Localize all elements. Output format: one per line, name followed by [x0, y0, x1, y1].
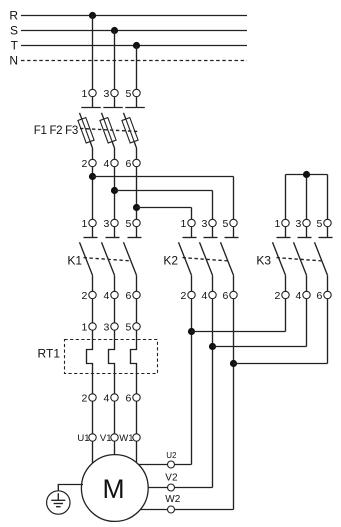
svg-text:R: R: [9, 9, 18, 23]
svg-text:6: 6: [125, 290, 131, 302]
svg-text:1: 1: [81, 88, 87, 100]
svg-text:V1: V1: [100, 433, 112, 444]
F1 pin 2: [92, 148, 94, 159]
wire to K3 pin 4: [213, 346, 307, 348]
svg-text:6: 6: [125, 392, 131, 404]
K2 linkage (dashed): [183, 258, 229, 261]
K2 pin 6: [233, 275, 235, 291]
svg-text:3: 3: [103, 321, 109, 333]
junction node delta 1: [188, 328, 195, 335]
terminal U1: [92, 401, 94, 434]
wire tap2 to K2 pin 3: [115, 190, 213, 192]
svg-text:5: 5: [316, 218, 322, 230]
svg-text:W2: W2: [165, 494, 180, 505]
wire tap1 to K2 pin 5: [93, 176, 234, 178]
wire drop R to fuse-switch: [92, 16, 94, 90]
svg-text:2: 2: [81, 290, 87, 302]
svg-text:RT1: RT1: [38, 347, 61, 361]
K1 pole 3 moving contact: [124, 242, 137, 275]
svg-text:3: 3: [103, 218, 109, 230]
svg-text:6: 6: [222, 290, 228, 302]
fuse F2 blade: [102, 113, 115, 148]
wire fuse output 4 down to K1: [114, 167, 116, 220]
K2 pole 3 moving contact: [221, 242, 234, 275]
svg-text:T: T: [11, 39, 19, 53]
svg-text:5: 5: [125, 218, 131, 230]
svg-text:6: 6: [125, 158, 131, 170]
junction node tap 2: [111, 187, 118, 194]
svg-text:4: 4: [201, 290, 207, 302]
F1 fixed contact: [92, 97, 94, 108]
K3 pole 2 moving contact: [294, 242, 307, 275]
svg-text:1: 1: [81, 321, 87, 333]
svg-text:2: 2: [180, 290, 186, 302]
svg-text:5: 5: [125, 321, 131, 333]
svg-text:N: N: [9, 54, 18, 68]
RT1 heater element 1: [87, 330, 93, 394]
svg-text:5: 5: [222, 218, 228, 230]
wire motor to U2: [120, 464, 167, 466]
junction star point: [303, 171, 310, 178]
K1 linkage (dashed): [84, 258, 132, 261]
svg-text:2: 2: [274, 290, 280, 302]
svg-text:1: 1: [81, 218, 87, 230]
junction node tap 1: [89, 173, 96, 180]
svg-text:S: S: [10, 24, 18, 38]
fuse F1 body: [78, 118, 94, 143]
RT1 heater element 2: [109, 330, 115, 394]
junction node delta 3: [230, 360, 237, 367]
svg-text:1: 1: [180, 218, 186, 230]
K2 pole 3 fixed contact: [233, 227, 235, 238]
K3 pin 2: [285, 275, 287, 291]
svg-text:F1 F2 F3: F1 F2 F3: [34, 125, 78, 137]
K3 pole 1 moving contact: [273, 242, 286, 275]
svg-text:K3: K3: [256, 253, 271, 267]
fuse F3 body: [122, 118, 138, 143]
K3 pole 2 fixed contact: [306, 227, 308, 238]
svg-text:U1: U1: [77, 433, 89, 444]
junction node delta 2: [209, 343, 216, 350]
F2 pin 4: [114, 148, 116, 159]
RT1 pin 1: [92, 299, 94, 323]
wire bus R: [21, 15, 247, 17]
wire motor to earth: [58, 485, 83, 491]
svg-text:6: 6: [316, 290, 322, 302]
motor M body: [81, 455, 148, 522]
svg-text:1: 1: [274, 218, 280, 230]
K2 pin 2: [191, 275, 193, 291]
K1 pin 2: [92, 275, 94, 291]
K1 pole 1 moving contact: [80, 242, 93, 275]
svg-text:K2: K2: [163, 253, 178, 267]
terminal V1: [114, 401, 116, 434]
wire drop T to fuse-switch: [136, 46, 138, 90]
K3 pole 3 moving contact: [315, 242, 328, 275]
fuse F3 blade: [124, 113, 137, 148]
svg-text:4: 4: [103, 290, 109, 302]
junction on bus S: [111, 27, 118, 34]
RT1 heater element 3: [131, 330, 137, 394]
wire U2 riser to K2 pin 2: [175, 464, 192, 466]
K2 pole 1 fixed contact: [191, 227, 193, 238]
wire W1 to motor: [136, 441, 138, 475]
K1 pin 4: [114, 275, 116, 291]
wire V1 to motor: [114, 441, 116, 475]
fuse F1 blade: [80, 113, 93, 148]
wire drop S to fuse-switch: [114, 31, 116, 90]
F3 fixed contact: [136, 97, 138, 108]
wire bus N (dashed): [21, 60, 247, 62]
F3 pin 6: [136, 148, 138, 159]
svg-text:3: 3: [103, 88, 109, 100]
K1 pole 2 moving contact: [102, 242, 115, 275]
wire tap3 to K2 pin 1: [137, 207, 192, 209]
svg-text:K1: K1: [67, 253, 82, 267]
K3 pole 1 fixed contact: [285, 227, 287, 238]
fuse-switch linkage (dashed): [80, 128, 140, 131]
svg-text:U2: U2: [166, 451, 177, 460]
svg-text:4: 4: [103, 392, 109, 404]
svg-text:4: 4: [103, 158, 109, 170]
K2 pin 4: [212, 275, 214, 291]
K1 pole 2 fixed contact: [114, 227, 116, 238]
junction on bus T: [133, 42, 140, 49]
K1 pole 3 fixed contact: [136, 227, 138, 238]
wire fuse output 6 down to K1: [136, 167, 138, 220]
RT1 pin 5: [136, 299, 138, 323]
K2 pole 1 moving contact: [179, 242, 192, 275]
wire motor to W2: [120, 509, 167, 511]
wire bus S: [21, 30, 247, 32]
svg-text:W1: W1: [119, 433, 133, 444]
svg-text:3: 3: [201, 218, 207, 230]
RT1 pin 3: [114, 299, 116, 323]
wire to K3 pin 2: [192, 331, 286, 333]
wire bus T: [21, 45, 247, 47]
terminal W1: [136, 401, 138, 434]
wire motor to V2: [120, 487, 167, 489]
earth (protective ground) symbol: [47, 491, 70, 514]
wire U1 to motor: [92, 441, 94, 475]
K3 pin 4: [306, 275, 308, 291]
svg-text:M: M: [102, 474, 124, 504]
wire W2 riser to K2 pin 6: [175, 509, 234, 511]
svg-text:5: 5: [125, 88, 131, 100]
fuse F2 body: [100, 118, 116, 143]
K3 pin 6: [327, 275, 329, 291]
K3 pole 3 fixed contact: [327, 227, 329, 238]
K2 pole 2 moving contact: [200, 242, 213, 275]
K1 pin 6: [136, 275, 138, 291]
svg-text:V2: V2: [165, 473, 178, 484]
wire V2 riser to K2 pin 4: [175, 487, 213, 489]
svg-text:4: 4: [295, 290, 301, 302]
K1 pole 1 fixed contact: [92, 227, 94, 238]
RT1 enclosure (dashed box): [65, 340, 158, 374]
wire star bridge above K3: [286, 174, 328, 176]
K2 pole 2 fixed contact: [212, 227, 214, 238]
svg-text:2: 2: [81, 158, 87, 170]
F2 fixed contact: [114, 97, 116, 108]
wire fuse output 2 down to K1: [92, 167, 94, 220]
svg-text:2: 2: [81, 392, 87, 404]
wire to K3 pin 6: [234, 363, 328, 365]
svg-text:3: 3: [295, 218, 301, 230]
junction node tap 3: [133, 204, 140, 211]
K3 linkage (dashed): [277, 258, 323, 261]
junction on bus R: [89, 12, 96, 19]
